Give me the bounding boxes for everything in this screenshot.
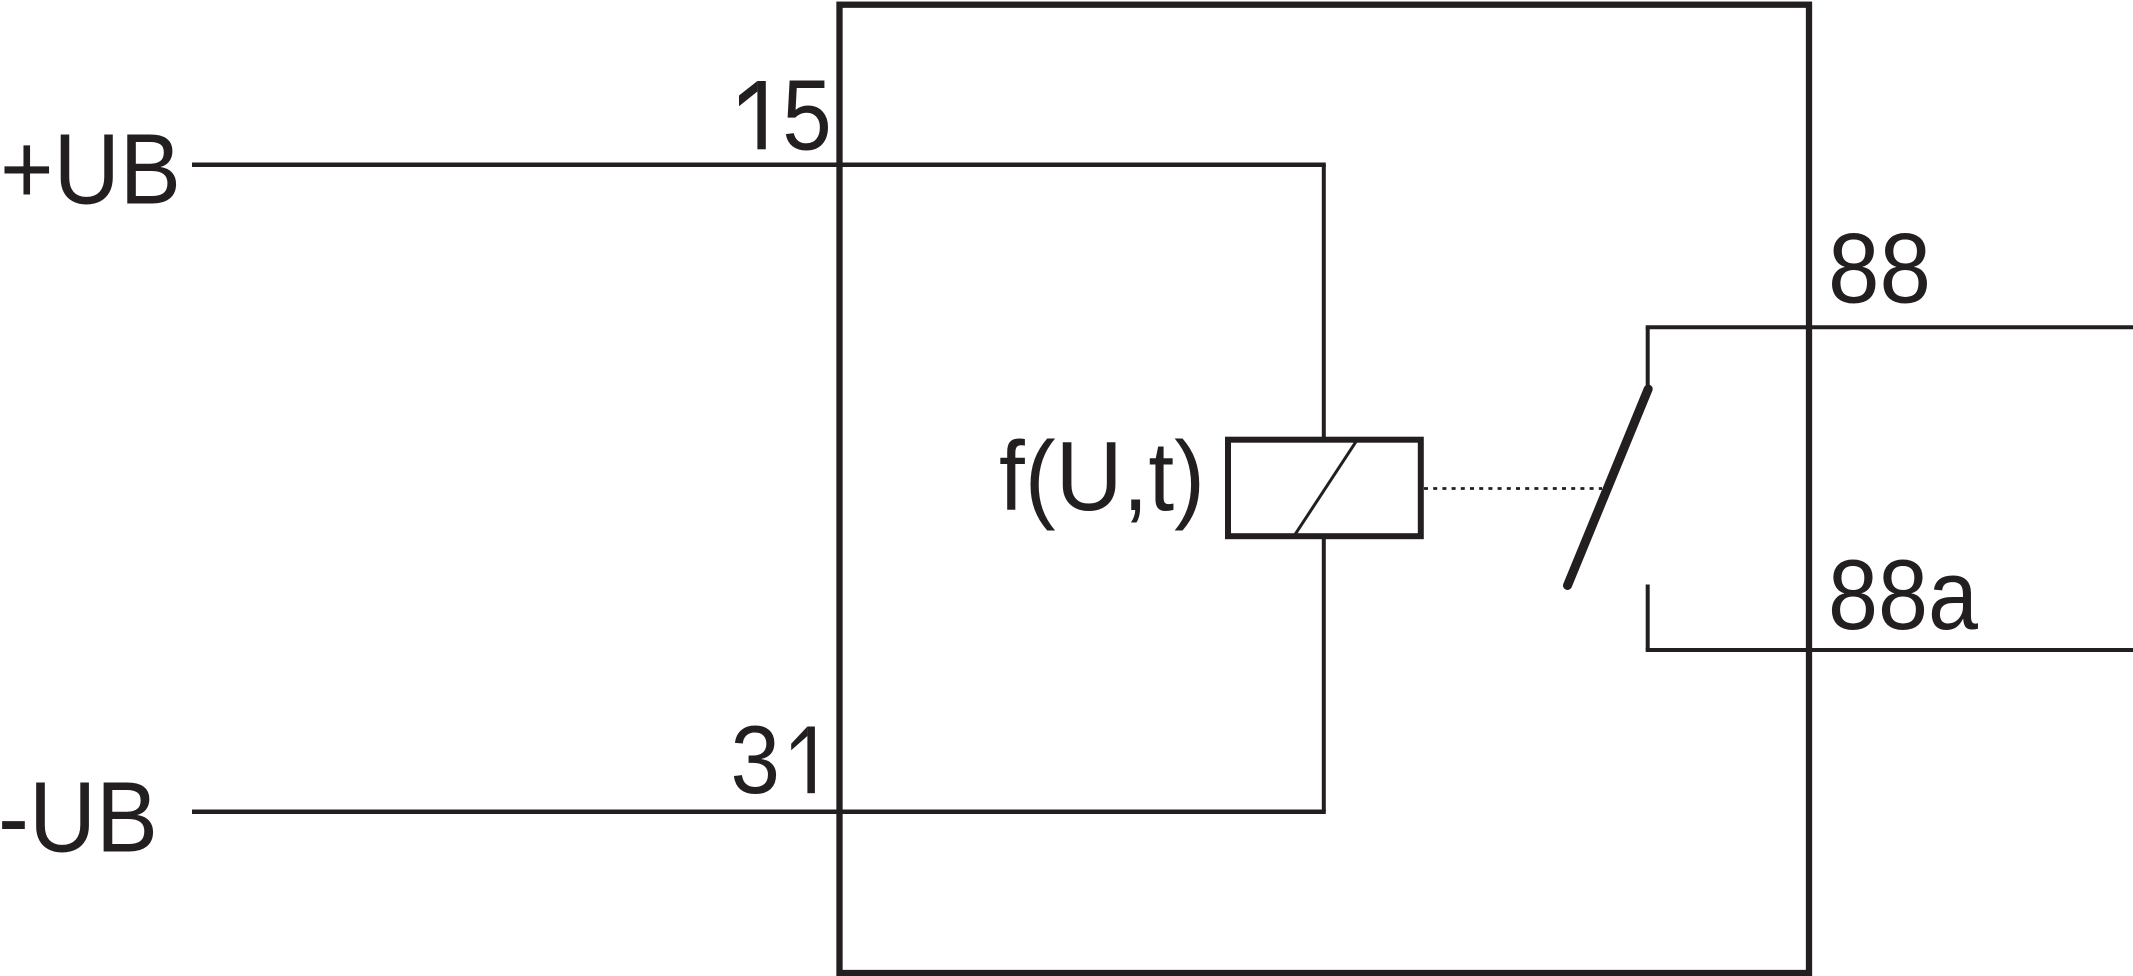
wire 88 output xyxy=(1646,325,2133,329)
pin 31 label digit 1 (flag) xyxy=(791,727,807,751)
pin 15 label digit 1 (flag) xyxy=(739,81,757,106)
wire coil return vertical xyxy=(1322,535,1326,812)
relay coil K1 diagonal xyxy=(1293,441,1356,537)
wire coil feed vertical xyxy=(1322,165,1326,442)
wire 88a output xyxy=(1646,648,2133,652)
pin 15 label digit 1 (stem) xyxy=(757,81,765,149)
svg-text:f(U,t): f(U,t) xyxy=(999,421,1205,531)
pin 31 label digit 1 (stem) xyxy=(807,727,815,794)
svg-text:+UB: +UB xyxy=(0,114,181,226)
svg-text:88: 88 xyxy=(1828,214,1931,325)
svg-text:5: 5 xyxy=(782,60,832,172)
wire +UB feed (pin 15) xyxy=(192,162,1326,167)
svg-text:88a: 88a xyxy=(1828,540,1979,651)
wire 88a contact stub xyxy=(1646,585,1650,651)
switch blade S1 xyxy=(1568,389,1649,586)
device box U1 (relay outline) xyxy=(840,5,1810,973)
wire -UB return (pin 31) xyxy=(192,810,1326,815)
svg-text:-UB: -UB xyxy=(0,762,158,874)
wire 88 pivot stub xyxy=(1646,327,1650,388)
relay coil K1 xyxy=(1228,440,1421,537)
dotted actuator link xyxy=(1424,487,1602,490)
svg-text:3: 3 xyxy=(731,707,781,814)
